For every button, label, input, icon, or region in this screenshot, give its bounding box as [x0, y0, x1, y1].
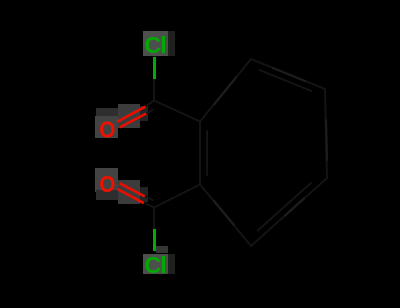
svg-text:Cl: Cl	[145, 252, 167, 278]
svg-text:Cl: Cl	[145, 32, 167, 58]
svg-text:O: O	[99, 116, 115, 142]
svg-text:O: O	[99, 171, 115, 197]
